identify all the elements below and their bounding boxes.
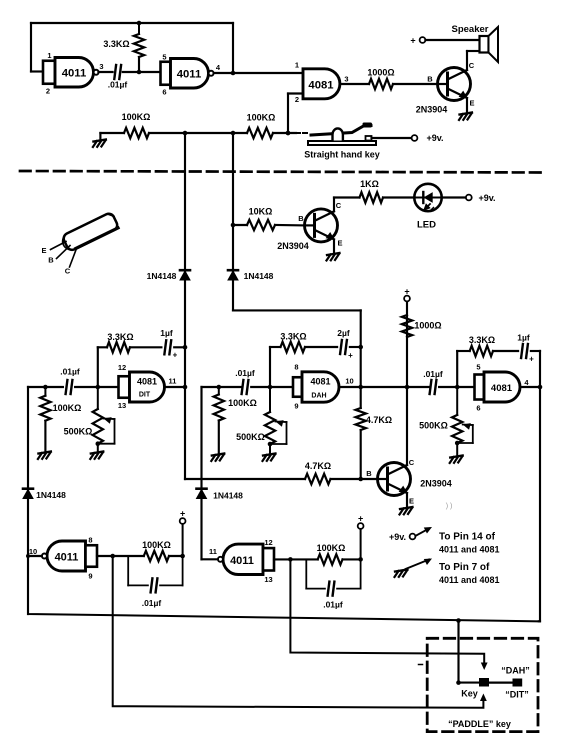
- svg-text:9: 9: [88, 572, 92, 581]
- svg-text:1000Ω: 1000Ω: [414, 321, 441, 331]
- svg-text:C: C: [336, 201, 342, 210]
- svg-text:1N4148: 1N4148: [36, 490, 66, 500]
- resistor R1 3.3K: [103, 21, 144, 72]
- wire DAH feedback up: [270, 347, 281, 387]
- svg-text:3.3KΩ: 3.3KΩ: [103, 39, 129, 49]
- pin 12 label U3A: [118, 363, 126, 372]
- svg-text:3: 3: [344, 75, 348, 84]
- wire rail x233: [231, 133, 236, 310]
- svg-text:To Pin 14 of: To Pin 14 of: [439, 532, 496, 543]
- svg-text:10: 10: [345, 377, 353, 386]
- svg-text:Key: Key: [461, 689, 478, 699]
- transistor Q1 2N3904: [438, 68, 471, 101]
- wire R5 to Q2 base: [233, 224, 305, 227]
- svg-text:1µf: 1µf: [160, 328, 173, 338]
- terminal +9v pin14: [410, 534, 416, 540]
- pin 11 label U3A: [169, 377, 177, 386]
- svg-text:500KΩ: 500KΩ: [236, 432, 265, 442]
- svg-text:4081: 4081: [310, 377, 330, 387]
- label LED: [417, 220, 436, 231]
- resistor R15 1000ohm: [402, 315, 442, 337]
- svg-text:3.3KΩ: 3.3KΩ: [469, 335, 495, 345]
- gate U5 4011 bottom-left: [42, 541, 97, 571]
- wire Q3 emitter: [406, 493, 408, 507]
- gate U1B 4011: [161, 59, 214, 89]
- wire dashed to key: [296, 132, 310, 134]
- svg-text:.01µf: .01µf: [323, 600, 343, 610]
- diode D4 1N4148: [197, 489, 244, 501]
- wire U1A output to C1: [98, 71, 112, 73]
- terminal +9v key: [412, 135, 418, 141]
- wire C1 to U1B input: [123, 70, 161, 75]
- resistor R19 100K: [317, 543, 346, 565]
- paddle key dashed box: [427, 638, 538, 731]
- label 4011 and 4081 a: [439, 545, 500, 555]
- wire U4 output: [520, 385, 542, 390]
- svg-text:1N4148: 1N4148: [244, 271, 274, 281]
- artifact smudge: [446, 503, 453, 510]
- wire DIT input a: [28, 385, 63, 390]
- TO-92 lead E: [41, 242, 66, 256]
- pin 10 label U3B: [345, 377, 353, 386]
- terminal +9v LED: [466, 195, 472, 201]
- potentiometer R9 500K DIT: [64, 387, 115, 452]
- wire DAH paddle: [290, 559, 487, 670]
- capacitor C2 .01uf DIT: [60, 367, 80, 395]
- svg-text:4.7KΩ: 4.7KΩ: [366, 415, 392, 425]
- label C Q1: [469, 61, 475, 70]
- wire R14 to Q3: [331, 478, 378, 480]
- gate U3B 4081 DAH: [293, 372, 339, 402]
- gate U1A 4011: [43, 58, 99, 88]
- ground R12: [263, 454, 276, 462]
- TO-92 lead C: [65, 249, 77, 276]
- label E Q1: [469, 99, 474, 108]
- pin 8 label U5: [88, 536, 92, 545]
- wire R11 to C5: [305, 346, 337, 348]
- svg-text:3.3KΩ: 3.3KΩ: [107, 332, 133, 342]
- wire rail DAH x201.5: [200, 387, 202, 559]
- svg-text:13: 13: [264, 575, 272, 584]
- svg-text:1: 1: [295, 61, 299, 70]
- terminal + 1000ohm: [404, 287, 410, 302]
- svg-text:5: 5: [162, 53, 166, 62]
- capacitor C6 .01uf right: [423, 369, 443, 394]
- svg-text:500KΩ: 500KΩ: [419, 421, 448, 431]
- svg-text:4011: 4011: [62, 68, 87, 80]
- label R13 4.7K: [366, 415, 392, 425]
- label 2N3904 Q1: [416, 105, 448, 115]
- straight key SW1: [308, 123, 376, 146]
- svg-text:4081: 4081: [491, 383, 513, 394]
- capacitor C1 .01uf: [108, 65, 128, 90]
- svg-text:) ): ) ): [446, 503, 453, 510]
- pin 9 label U3B: [294, 402, 298, 411]
- svg-text:11: 11: [209, 547, 217, 556]
- resistor R16 3.3K right: [469, 335, 495, 356]
- label 4011 and 4081 b: [439, 575, 500, 585]
- label 2N3904 Q3: [420, 479, 452, 489]
- ground Q3: [400, 507, 413, 515]
- label C Q2: [336, 201, 342, 210]
- svg-text:12: 12: [264, 538, 272, 547]
- diode D2 1N4148: [228, 270, 274, 281]
- svg-text:B: B: [48, 256, 54, 265]
- svg-text:+9v.: +9v.: [426, 133, 443, 143]
- wire key common down: [457, 621, 459, 683]
- svg-text:“PADDLE” key: “PADDLE” key: [448, 719, 511, 729]
- wire rail x360.7 with R13: [356, 347, 366, 481]
- resistor R18 100K: [142, 540, 171, 561]
- svg-text:4: 4: [524, 378, 529, 387]
- svg-text:4011 and 4081: 4011 and 4081: [439, 575, 500, 585]
- resistor R7 100K DIT: [40, 387, 81, 452]
- svg-text:2: 2: [46, 87, 50, 96]
- wire C5 to rail: [350, 345, 363, 350]
- svg-text:DAH: DAH: [311, 393, 326, 400]
- wire R6 to LED: [383, 196, 415, 198]
- pin 2 label U2: [295, 95, 299, 104]
- pin 3 label U1A: [99, 62, 103, 71]
- node key common: [456, 680, 461, 685]
- svg-text:3: 3: [99, 62, 103, 71]
- ground R9: [90, 452, 103, 460]
- svg-text:.01µf: .01µf: [142, 598, 162, 608]
- wire R2 to Q1 base: [393, 83, 438, 85]
- wire DIT input b: [75, 385, 118, 390]
- wire R8 to C3: [130, 346, 161, 348]
- ground R17: [450, 456, 463, 464]
- svg-text:4081: 4081: [137, 377, 157, 387]
- svg-text:+: +: [348, 351, 353, 360]
- wire rail DIT x28: [26, 387, 30, 614]
- svg-text:500KΩ: 500KΩ: [64, 427, 93, 437]
- wire U5 input: [97, 554, 144, 559]
- dah-dit contact square: [513, 679, 523, 687]
- svg-text:4: 4: [216, 63, 221, 72]
- label PADDLE key: [448, 719, 511, 729]
- pin 4 label U4: [524, 378, 529, 387]
- LED DS1: [414, 184, 441, 214]
- wire U1B output to U2 pin1: [214, 72, 303, 74]
- svg-text:1000Ω: 1000Ω: [367, 68, 394, 78]
- svg-text:2µf: 2µf: [337, 328, 350, 338]
- svg-text:+: +: [358, 514, 363, 524]
- label B Q3: [366, 469, 372, 478]
- svg-text:6: 6: [476, 404, 480, 413]
- svg-text:Speaker: Speaker: [452, 24, 489, 35]
- key contact square: [479, 678, 489, 687]
- wire jog x233 to DAH rail: [233, 310, 361, 347]
- pin 5 label U4: [476, 363, 480, 372]
- svg-text:2N3904: 2N3904: [420, 479, 452, 489]
- svg-text:+9v.: +9v.: [478, 193, 495, 203]
- wire U2 output: [341, 83, 370, 85]
- gate U4 4081 right: [475, 372, 521, 402]
- svg-text:“DIT”: “DIT”: [505, 690, 529, 700]
- wire right feedback up: [457, 351, 470, 387]
- wire Q1 collector to speaker: [467, 51, 480, 70]
- dashed separator line: [20, 171, 543, 173]
- label To Pin 14 of: [439, 532, 496, 543]
- svg-text:DIT: DIT: [139, 392, 151, 399]
- wire key line c: [273, 131, 296, 136]
- gate U3A 4081 DIT: [119, 372, 165, 402]
- svg-text:4.7KΩ: 4.7KΩ: [305, 461, 331, 471]
- pin 4 label U1B: [216, 63, 221, 72]
- svg-text:.01µf: .01µf: [235, 368, 255, 378]
- pin 13 label U6: [264, 575, 272, 584]
- wire key line a: [100, 132, 124, 134]
- diode D1 1N4148: [147, 270, 190, 281]
- pin 1 label U2: [295, 61, 299, 70]
- wire U5 rail corner bottom: [28, 556, 539, 621]
- wire U5 output to rail: [28, 555, 42, 557]
- svg-text:To Pin 7 of: To Pin 7 of: [439, 562, 490, 573]
- wire R19 right: [343, 557, 363, 562]
- stray mark: [419, 664, 423, 666]
- svg-text:1KΩ: 1KΩ: [360, 179, 379, 189]
- label B Q2: [298, 214, 304, 223]
- TO-92 lead B: [48, 246, 70, 265]
- svg-text:.01µf: .01µf: [108, 80, 128, 90]
- wire DAH input a: [202, 385, 242, 390]
- wire Q1 emitter to ground: [466, 98, 468, 112]
- svg-text:100KΩ: 100KΩ: [122, 112, 151, 122]
- svg-text:E: E: [469, 99, 474, 108]
- svg-text:.01µf: .01µf: [60, 367, 80, 377]
- potentiometer R17 500K right: [419, 387, 473, 456]
- ground R10: [211, 454, 224, 462]
- wire Q3 collector rail: [405, 299, 410, 465]
- transistor Q3 2N3904: [378, 463, 411, 496]
- label E Q2: [337, 239, 342, 248]
- svg-text:+9v.: +9v.: [389, 532, 406, 542]
- capacitor C9 .01uf loop: [306, 559, 360, 609]
- svg-text:1µf: 1µf: [517, 333, 530, 343]
- node top-right corner junction: [231, 23, 236, 75]
- ground pin7: [395, 570, 408, 578]
- label C Q3: [409, 458, 415, 467]
- ground Q2 emitter: [327, 253, 340, 261]
- svg-text:+: +: [404, 287, 409, 297]
- svg-text:1: 1: [47, 51, 51, 60]
- wire to key square: [459, 682, 480, 684]
- svg-text:B: B: [298, 214, 304, 223]
- svg-text:+: +: [180, 509, 185, 519]
- wire rail x185 lower: [183, 345, 188, 479]
- svg-text:100KΩ: 100KΩ: [247, 113, 276, 123]
- wire key line b: [149, 131, 247, 136]
- wire LED to +9v: [442, 196, 466, 198]
- diode D3 1N4148: [23, 489, 66, 500]
- resistor R14 4.7K: [305, 461, 331, 484]
- pin 13 label U3A: [118, 401, 126, 410]
- label DAH: [501, 666, 530, 676]
- node bottom junction: [456, 618, 461, 623]
- label B Q1: [427, 75, 433, 84]
- svg-text:8: 8: [88, 536, 92, 545]
- label To Pin 7 of: [439, 562, 490, 573]
- resistor R2 1000ohm: [367, 68, 394, 90]
- terminal + left combo: [180, 509, 186, 557]
- ground R7: [38, 452, 51, 460]
- svg-text:100KΩ: 100KΩ: [53, 403, 82, 413]
- wire Q2 emitter down: [333, 239, 335, 253]
- svg-text:10: 10: [29, 547, 37, 556]
- label E Q3: [409, 497, 414, 506]
- svg-text:10KΩ: 10KΩ: [249, 207, 273, 217]
- svg-text:+: +: [529, 355, 534, 364]
- svg-text:+: +: [410, 36, 415, 46]
- svg-text:2: 2: [295, 95, 299, 104]
- label DIT: [505, 690, 529, 700]
- svg-text:4081: 4081: [308, 80, 333, 92]
- capacitor C5 2uf DAH: [337, 328, 353, 360]
- svg-text:5: 5: [476, 363, 480, 372]
- svg-text:C: C: [409, 458, 415, 467]
- speaker terminal +: [410, 36, 425, 46]
- capacitor C4 .01uf DAH: [235, 368, 255, 394]
- wire R16 to C7: [493, 350, 518, 352]
- svg-text:100KΩ: 100KΩ: [228, 398, 257, 408]
- TO-92 package drawing: [60, 212, 120, 253]
- svg-text:100KΩ: 100KΩ: [142, 540, 171, 550]
- arrow to pin14: [416, 524, 434, 536]
- svg-text:+: +: [173, 351, 178, 360]
- arrow to pin7: [406, 555, 434, 569]
- svg-text:4011 and 4081: 4011 and 4081: [439, 545, 500, 555]
- label Straight hand key: [304, 150, 380, 160]
- transistor Q2 2N3904: [305, 209, 338, 242]
- resistor R6 1K: [360, 179, 383, 203]
- pin 3 label U2: [344, 75, 348, 84]
- svg-text:E: E: [41, 246, 46, 255]
- pin 9 label U5: [88, 572, 92, 581]
- gate U2 4081: [303, 69, 340, 99]
- svg-text:C: C: [469, 61, 475, 70]
- terminal + mid combo: [358, 514, 364, 560]
- resistor R11 3.3K DAH: [280, 332, 306, 353]
- svg-text:9: 9: [294, 402, 298, 411]
- svg-text:1N4148: 1N4148: [213, 491, 243, 501]
- svg-text:13: 13: [118, 401, 126, 410]
- wire DIT paddle: [113, 556, 487, 708]
- svg-text:B: B: [427, 75, 433, 84]
- svg-text:E: E: [337, 239, 342, 248]
- resistor R8 3.3K DIT: [107, 332, 134, 352]
- svg-text:E: E: [409, 497, 414, 506]
- label 2N3904 Q2: [277, 241, 309, 251]
- wire bottom to right rail: [539, 620, 540, 622]
- wire U3A output: [165, 386, 186, 388]
- label Speaker: [452, 24, 489, 35]
- wire right input: [361, 386, 430, 388]
- wire C7 to rail: [531, 350, 540, 352]
- svg-text:12: 12: [118, 363, 126, 372]
- capacitor C8 .01uf loop: [128, 556, 182, 608]
- wire rail x185 upper: [184, 133, 186, 347]
- capacitor C7 1uf right: [517, 333, 534, 364]
- speaker SP1: [480, 27, 499, 62]
- wire C3 to rail: [174, 346, 185, 348]
- svg-text:4011: 4011: [230, 555, 254, 567]
- wire DIT feedback up: [98, 347, 107, 387]
- svg-text:6: 6: [162, 88, 166, 97]
- wire Q2 collector up: [334, 198, 360, 212]
- ground Q1 emitter: [459, 113, 472, 121]
- svg-text:1N4148: 1N4148: [147, 271, 177, 281]
- svg-text:LED: LED: [417, 220, 436, 231]
- capacitor C3 1uf DIT: [160, 328, 177, 360]
- ground key line left: [93, 133, 106, 147]
- wire U6 input: [274, 557, 318, 562]
- svg-text:8: 8: [294, 363, 298, 372]
- svg-text:4011: 4011: [177, 69, 202, 81]
- pin 12 label U6: [264, 538, 272, 547]
- wire R18 right: [169, 554, 185, 559]
- pin 11 label U6: [209, 547, 217, 556]
- gate U6 4011 bottom-mid: [218, 544, 274, 574]
- pin 2 label U1A: [46, 87, 50, 96]
- pin 1 label U1A: [47, 51, 51, 60]
- svg-text:C: C: [65, 267, 71, 276]
- wire U3B output: [339, 385, 363, 390]
- svg-text:4011: 4011: [55, 552, 79, 564]
- svg-text:“DAH”: “DAH”: [501, 666, 530, 676]
- wire key to dit-dah square: [489, 681, 513, 683]
- wire top feedback loop: [31, 23, 233, 72]
- svg-text:Straight hand key: Straight hand key: [304, 150, 380, 160]
- label +9v pin14: [389, 532, 406, 542]
- resistor R10 100K DAH: [214, 387, 257, 454]
- potentiometer R12 500K DAH: [236, 387, 286, 454]
- resistor R4 100K: [247, 113, 276, 139]
- svg-text:B: B: [366, 469, 372, 478]
- wire U2 pin2 to key line: [286, 94, 303, 136]
- wire speaker feed: [425, 39, 479, 41]
- wire right input b: [439, 385, 474, 390]
- label +9v key: [426, 133, 443, 143]
- wire DAH input b: [251, 385, 293, 390]
- label +9v LED: [478, 193, 495, 203]
- pin 8 label U3B: [294, 363, 298, 372]
- wire Q3 base line: [185, 478, 305, 480]
- svg-text:3.3KΩ: 3.3KΩ: [280, 332, 306, 342]
- wire key to +9v: [372, 137, 412, 139]
- wire rail right x540: [539, 351, 541, 621]
- svg-text:100KΩ: 100KΩ: [317, 543, 346, 553]
- svg-text:2N3904: 2N3904: [277, 241, 309, 251]
- pin 5 label U1B: [162, 53, 166, 62]
- svg-text:2N3904: 2N3904: [416, 105, 448, 115]
- resistor R5 10K: [247, 207, 275, 231]
- svg-text:11: 11: [169, 377, 177, 386]
- resistor R3 100K: [122, 112, 151, 138]
- pin 10 label U5: [29, 547, 37, 556]
- label Key: [461, 689, 478, 699]
- pin 6 label U1B: [162, 88, 166, 97]
- pin 6 label U4: [476, 404, 480, 413]
- wire rail to U6 bubble: [202, 558, 218, 560]
- svg-text:.01µf: .01µf: [423, 369, 443, 379]
